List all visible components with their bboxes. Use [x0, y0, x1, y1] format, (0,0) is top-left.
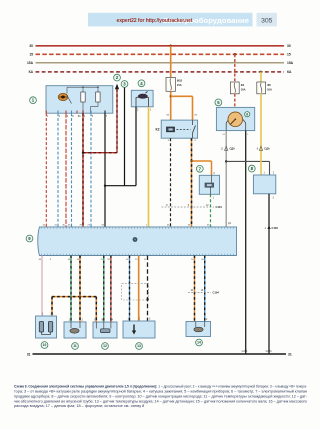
svg-text:6: 6	[246, 112, 248, 116]
svg-text:15А: 15А	[177, 83, 182, 87]
svg-text:10: 10	[43, 343, 47, 347]
svg-text:СДА: СДА	[230, 148, 236, 151]
svg-text:C: C	[94, 319, 96, 322]
svg-text:31: 31	[288, 352, 292, 356]
svg-text:15: 15	[29, 53, 33, 57]
svg-text:С104: С104	[213, 291, 220, 295]
svg-text:305: 305	[261, 18, 273, 25]
svg-text:Ф1: Ф1	[241, 83, 245, 87]
svg-text:чик абсолютного давления во вп: чик абсолютного давления во впускной тру…	[14, 399, 307, 403]
svg-text:продувки адсорбера; 8 – датчик: продувки адсорбера; 8 – датчик скорости …	[14, 394, 308, 398]
svg-text:10А: 10А	[241, 87, 246, 91]
svg-text:Ф18: Ф18	[177, 79, 183, 83]
svg-text:15: 15	[287, 53, 291, 57]
svg-text:10А: 10А	[267, 87, 272, 91]
svg-text:G301: G301	[242, 350, 249, 353]
svg-text:КА: КА	[287, 70, 292, 74]
svg-text:8А: 8А	[78, 115, 81, 118]
svg-text:31: 31	[27, 352, 31, 356]
svg-text:С101: С101	[216, 205, 223, 209]
svg-text:11: 11	[73, 344, 77, 348]
svg-text:КА: КА	[29, 70, 34, 74]
svg-text:15А: 15А	[27, 61, 34, 65]
svg-text:Схема 9. Соединения электронно: Схема 9. Соединения электронной системы …	[14, 385, 308, 389]
svg-text:30: 30	[29, 44, 33, 48]
svg-text:Ф5: Ф5	[267, 83, 271, 87]
svg-text:К2: К2	[156, 128, 160, 132]
svg-text:15А: 15А	[287, 61, 294, 65]
svg-text:С102: С102	[272, 226, 279, 230]
svg-text:СДА: СДА	[264, 148, 270, 151]
svg-text:G304: G304	[266, 350, 273, 353]
svg-text:тора; 3 – от вывода «В» катушк: тора; 3 – от вывода «В» катушки реле раз…	[14, 390, 307, 394]
svg-text:расхода воздуха; 17 – датчик ф: расхода воздуха; 17 – датчик фаз; 18 – ф…	[14, 404, 144, 408]
svg-text:expert22 for http://youtracker: expert22 for http://youtracker.net	[117, 18, 193, 24]
svg-text:12: 12	[103, 344, 107, 348]
svg-text:13: 13	[137, 344, 141, 348]
svg-text:30: 30	[287, 44, 291, 48]
svg-text:14: 14	[197, 341, 201, 345]
